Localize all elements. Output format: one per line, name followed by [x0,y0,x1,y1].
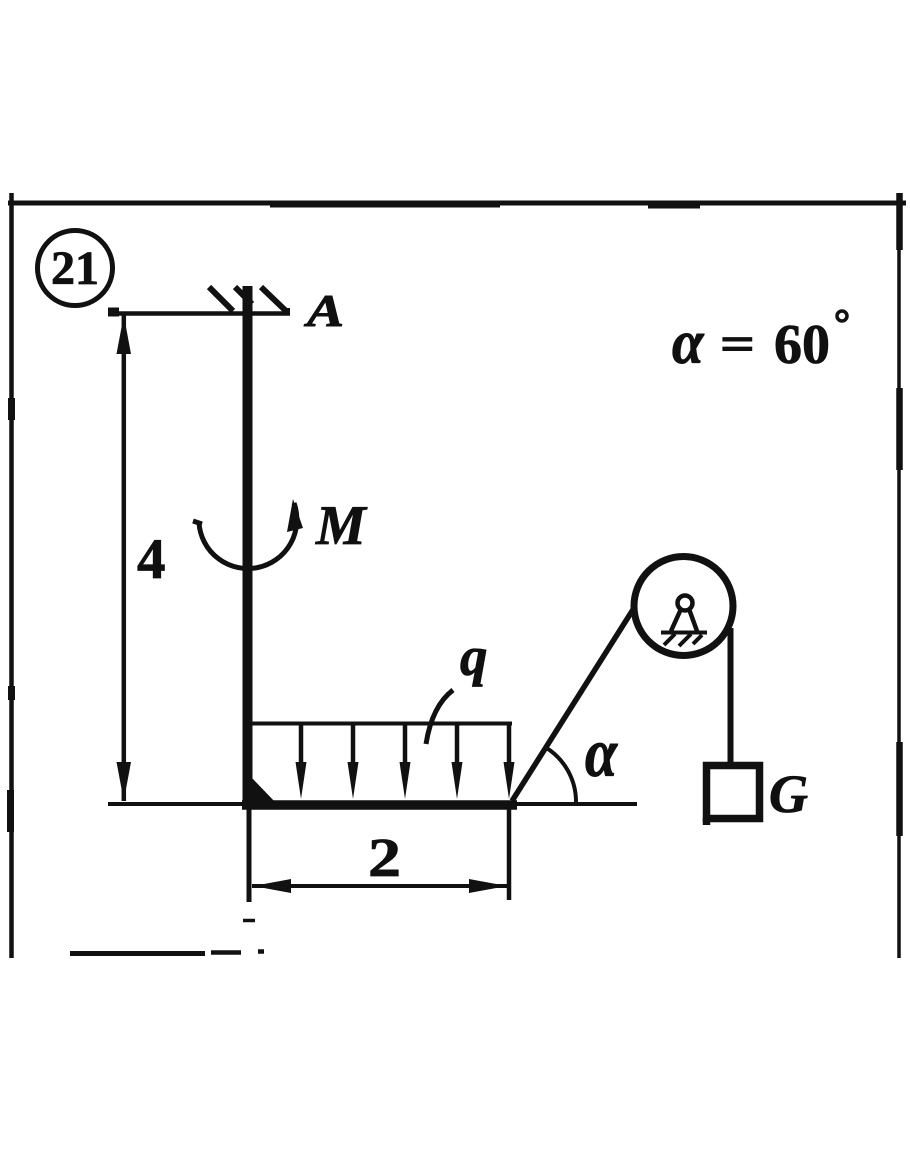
load arrow 4 head [452,762,463,799]
rope inclined [512,608,634,801]
fixed support hatch 1 [209,287,233,311]
pulley pin baseline [661,631,707,635]
border frame right line blobs [896,193,903,836]
svg-text:q: q [460,626,488,687]
moment M arc tail serif [193,521,202,524]
pulley pin hatch 3 [693,635,702,644]
pulley pin circle [678,596,693,611]
load arrow 1 stem [299,723,304,768]
fixed support hatch 3 [261,287,286,311]
moment M arrowhead [287,499,303,532]
svg-text:A: A [303,285,344,336]
border frame top line thick blob [270,204,700,205]
pulley pin right leg [689,609,697,631]
load arrow 2 head [348,762,359,799]
pulley pin left leg [671,609,681,631]
partial next-figure dot [258,949,264,954]
load arrow 5 head [504,762,515,799]
svg-text:21: 21 [51,242,99,295]
distributed load top line [250,722,512,726]
pulley circle [634,557,733,656]
ground baseline thin line [108,802,637,806]
load arrow 2 stem [351,723,356,768]
dimension 2 arrow left [253,879,291,893]
border frame left line blobs [11,398,12,832]
angle alpha arc [545,747,576,802]
border frame left line [9,193,14,958]
dimension 2 arrow right [469,879,507,893]
fixed support left end tick [108,308,119,317]
dimension 2 line [252,884,508,888]
border frame top line [8,201,906,206]
load arrow 5 stem [507,723,512,768]
partial next-figure line bottom left [70,951,205,956]
q leader curve [426,690,453,744]
load arrow 1 head [296,762,307,799]
dimension 4 line [122,315,127,801]
border frame right line [897,203,901,958]
fixed support ceiling line at A [108,311,290,316]
svg-text:α: α [585,715,618,792]
fixed support hatch 2 [235,287,252,304]
corner fillet [252,778,277,804]
vertical beam [243,286,253,808]
weight box left overshoot [703,818,711,825]
figure number circle 21 [38,231,113,306]
degree symbol [837,311,847,321]
dimension 2 left extension foot [243,919,255,923]
partial next-figure line segment 2 [211,950,241,955]
dimension 4 arrow up [117,315,132,354]
svg-text:2: 2 [368,827,401,888]
load arrow 4 stem [455,723,460,768]
dimension 2 right extension [507,808,512,900]
pulley pin hatch 1 [664,634,675,645]
svg-text:G: G [769,764,808,824]
dimension 2 left extension [247,808,252,902]
svg-text:M: M [315,495,368,557]
load arrow 3 stem [403,723,408,768]
svg-text:60: 60 [774,314,830,376]
pulley pin hatch 2 [679,634,691,646]
fixed support hatch 3 foot [282,308,290,313]
svg-text:=: = [720,318,755,371]
moment M arc [199,503,297,569]
svg-text:4: 4 [137,528,166,591]
rope vertical [728,628,734,764]
svg-text:α: α [672,308,704,377]
weight box G [707,766,760,819]
horizontal beam thick [242,800,517,810]
dimension 4 arrow down [117,762,132,801]
load arrow 3 head [400,762,411,799]
